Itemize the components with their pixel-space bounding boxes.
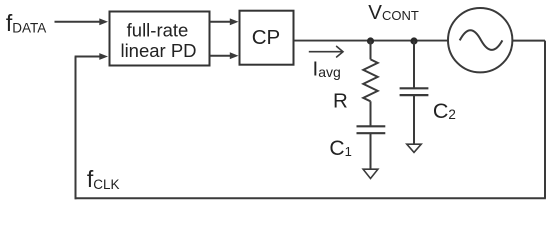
wire: feedback arrow into PD [75,53,108,60]
node: junction of rail and C2 branch [410,37,417,44]
sine wave inside VCO [460,30,503,50]
wire: CP output rail to VCO [294,40,449,42]
wire: C1 to ground [370,133,372,169]
ground symbol below C2 [407,144,421,152]
capacitor C2 [400,88,429,95]
wire: input arrow from f_DATA into PD [55,18,109,25]
wire: bottom feedback [75,197,546,199]
capacitor C1 [357,126,386,133]
svg-text:CP: CP [252,26,280,49]
VCO oscillator symbol [448,8,512,72]
wire: resistor to C1 [370,101,372,126]
wire: PD to CP top arrow [210,18,239,25]
svg-text:R: R [333,89,348,112]
wire: PD to CP bottom arrow [210,52,239,59]
resistor R [363,59,377,101]
ground symbol below C1 [363,169,378,178]
wire: C2 to ground [413,95,415,144]
current direction arrow for I_avg [309,46,343,57]
block: CP charge pump [240,11,294,65]
svg-text:linear PD: linear PD [120,40,196,61]
node: junction of rail and R-C1 branch [367,37,374,44]
svg-text:full-rate: full-rate [127,19,189,40]
wire: VCO output to right edge [512,40,545,42]
wire: left vertical feedback [75,57,77,200]
wire: node to C2 [413,41,415,89]
wire: right vertical feedback [544,41,546,198]
wire: node to resistor R [370,41,372,60]
block: full-rate linear PD [110,12,210,66]
